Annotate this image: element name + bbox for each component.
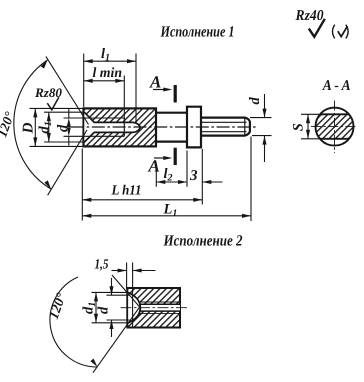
- middle shaft with flats: [156, 112, 187, 114]
- section mark A bottom: [174, 148, 177, 165]
- thread chamfer line: [244, 118, 246, 136]
- version 2 thread major thin lines: [138, 301, 180, 303]
- version 2 thread minor lines: [140, 303, 180, 305]
- svg-text:S: S: [291, 123, 307, 131]
- svg-text:Исполнение 2: Исполнение 2: [163, 233, 243, 250]
- dimension D: [30, 108, 84, 146]
- svg-text:A - A: A - A: [322, 78, 351, 94]
- hatch of version 2 body: [127, 288, 180, 328]
- svg-text:1,5: 1,5: [95, 258, 109, 273]
- version 2 centerline: [121, 307, 188, 309]
- version 2 hole core white: [139, 304, 180, 311]
- version 2 body outline: [127, 288, 180, 328]
- section mark A top: [174, 85, 177, 103]
- svg-text:Rz40: Rz40: [295, 8, 324, 24]
- thread minor dia thin lines: [202, 121, 247, 123]
- section centerlines: [334, 101, 336, 154]
- threaded hole outline: [84, 112, 140, 142]
- body outline: [84, 108, 157, 146]
- collar: [187, 107, 201, 148]
- svg-text:D: D: [20, 122, 36, 134]
- 120 degree arc version 2: [50, 277, 98, 367]
- svg-text:d: d: [55, 124, 71, 132]
- svg-text:d: d: [96, 306, 112, 314]
- svg-text:d: d: [247, 97, 263, 105]
- dimension d (hole thread): [64, 109, 92, 146]
- roughness symbol Rz40: [295, 8, 325, 37]
- svg-text:l min: l min: [93, 66, 123, 81]
- dimension L1: [82, 137, 251, 222]
- hole thread end line: [123, 118, 125, 136]
- svg-text:A: A: [148, 157, 160, 176]
- svg-text:A: A: [149, 73, 161, 92]
- version 2 countersink bell: [128, 292, 140, 322]
- svg-text:3: 3: [189, 168, 198, 184]
- hole thread major dia thin lines: [90, 117, 125, 119]
- hatch of sectioned body: [84, 108, 157, 146]
- dimension d1: [44, 112, 84, 142]
- svg-text:Исполнение 1: Исполнение 1: [160, 24, 235, 41]
- dimension 1,5: [112, 263, 156, 328]
- 120 degree construction lines version 2: [112, 275, 141, 309]
- dimension 3 (collar): [202, 149, 222, 205]
- dimension l2: [156, 151, 187, 187]
- dimension d version 2: [107, 278, 130, 337]
- 120 degree arc: [14, 60, 51, 189]
- dimension S: [301, 114, 322, 139]
- dimension d (right thread): [250, 94, 272, 162]
- dimension l min: [123, 76, 125, 120]
- symbol (√): [333, 25, 349, 39]
- svg-text:L h11: L h11: [111, 184, 142, 199]
- dimension L h11: [82, 149, 202, 221]
- dimension d1 version 2: [92, 292, 129, 322]
- centerline: [71, 126, 256, 128]
- flats: [320, 113, 349, 115]
- section circle: [316, 108, 354, 146]
- 120 degree cone construction lines: [46, 56, 89, 124]
- threaded end shaft: [201, 118, 250, 136]
- dimension l1: [84, 54, 136, 123]
